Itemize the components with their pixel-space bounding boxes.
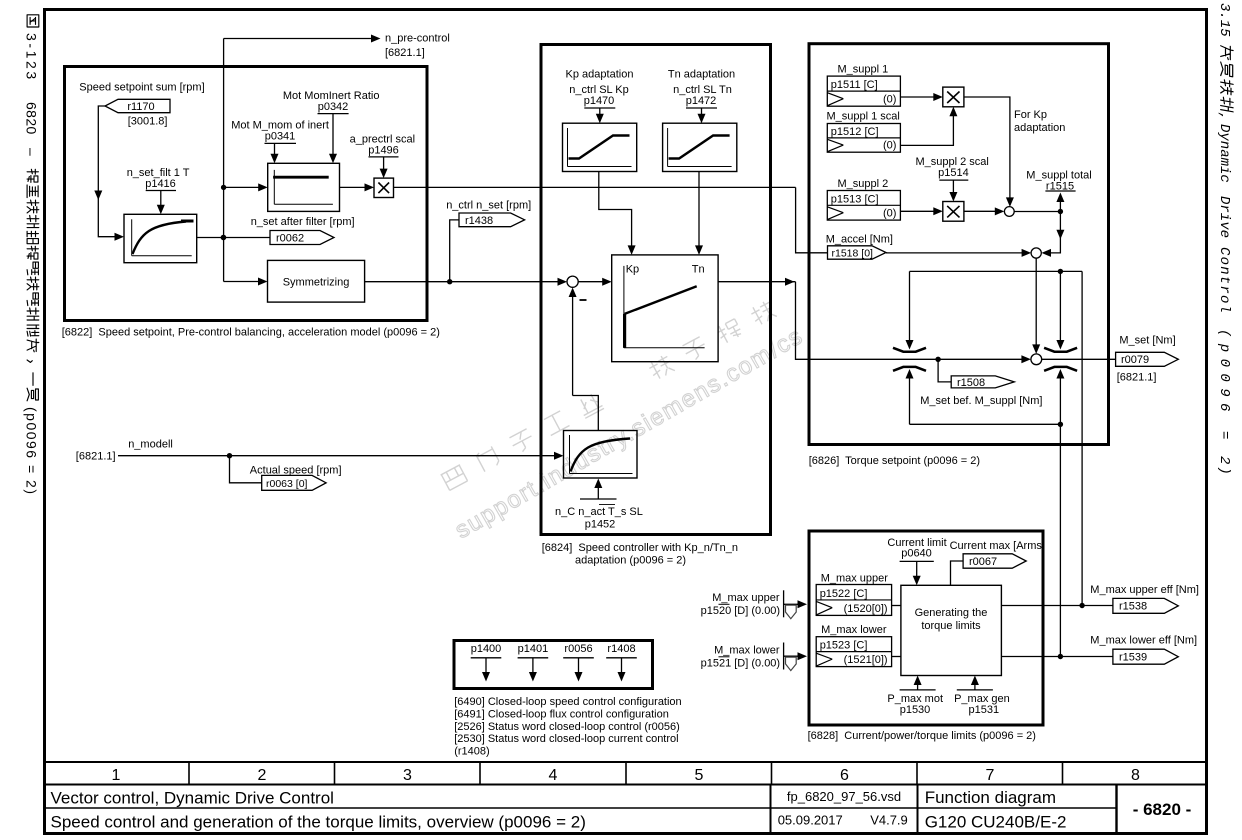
svg-text:1: 1 <box>112 767 121 784</box>
svg-text:fp_6820_97_56.vsd: fp_6820_97_56.vsd <box>787 789 901 804</box>
svg-text:Vector control, Dynamic Drive: Vector control, Dynamic Drive Control <box>51 789 334 808</box>
svg-text:M_accel [Nm]: M_accel [Nm] <box>826 234 893 246</box>
svg-text:p1470: p1470 <box>584 95 615 107</box>
svg-text:For Kp: For Kp <box>1014 109 1047 121</box>
svg-text:8: 8 <box>1131 767 1140 784</box>
svg-text:M_max upper: M_max upper <box>821 573 889 585</box>
svg-text:p1452: p1452 <box>585 519 616 531</box>
svg-text:p1514: p1514 <box>938 167 969 179</box>
svg-text:[6824] Speed controller with: [6824] Speed controller with Kp_n/Tn_n <box>542 542 738 554</box>
svg-text:[6490] Closed-loop speed contr: [6490] Closed-loop speed control configu… <box>454 696 681 708</box>
svg-text:r1170: r1170 <box>127 101 154 113</box>
svg-text:Speed control and generation o: Speed control and generation of the torq… <box>51 813 586 832</box>
svg-text:r0067: r0067 <box>969 556 997 568</box>
svg-text:Symmetrizing: Symmetrizing <box>283 277 350 289</box>
svg-text:p1513 [C]: p1513 [C] <box>831 193 879 205</box>
svg-text:3: 3 <box>403 767 412 784</box>
svg-text:p1400: p1400 <box>471 643 502 655</box>
svg-text:[2530] Status word closed-loop: [2530] Status word closed-loop current c… <box>454 733 678 745</box>
svg-text:,: , <box>1216 112 1232 120</box>
svg-text:- 6820 -: - 6820 - <box>1133 800 1192 819</box>
svg-text:n_modell: n_modell <box>128 439 173 451</box>
svg-text:Speed setpoint sum [rpm]: Speed setpoint sum [rpm] <box>79 82 204 94</box>
svg-text:p1472: p1472 <box>686 95 717 107</box>
svg-text:G120 CU240B/E-2: G120 CU240B/E-2 <box>925 813 1067 832</box>
svg-text:r1539: r1539 <box>1119 652 1147 664</box>
svg-text:adaptation (p0096 = 2): adaptation (p0096 = 2) <box>575 555 686 567</box>
svg-text:M_max upper eff [Nm]: M_max upper eff [Nm] <box>1090 584 1199 596</box>
svg-text:Dynamic: Dynamic <box>1216 124 1232 183</box>
svg-text:[3001.8]: [3001.8] <box>128 116 168 128</box>
svg-text:7: 7 <box>986 767 995 784</box>
svg-text:Drive: Drive <box>1216 196 1232 238</box>
svg-text:adaptation: adaptation <box>1014 122 1065 134</box>
svg-text:Kp: Kp <box>626 264 639 276</box>
svg-text:p1522 [C]: p1522 [C] <box>820 588 868 600</box>
svg-text:2): 2) <box>1216 456 1232 477</box>
svg-text:p1530: p1530 <box>900 704 931 716</box>
svg-text:(r1408): (r1408) <box>454 746 489 758</box>
svg-text:M_suppl 1: M_suppl 1 <box>838 64 889 76</box>
svg-text:[6821.1]: [6821.1] <box>1117 372 1157 384</box>
svg-text:[2526] Status word closed-loop: [2526] Status word closed-loop control (… <box>454 721 680 733</box>
svg-text:=: = <box>1216 431 1232 439</box>
svg-text:Actual speed [rpm]: Actual speed [rpm] <box>250 465 342 477</box>
svg-text:6: 6 <box>840 767 849 784</box>
svg-text:Function diagram: Function diagram <box>925 788 1056 807</box>
svg-text:n_pre-control: n_pre-control <box>385 33 450 45</box>
svg-text:p1496: p1496 <box>368 145 399 157</box>
svg-text:r0063 [0]: r0063 [0] <box>266 478 308 490</box>
svg-text:Tn adaptation: Tn adaptation <box>668 69 735 81</box>
svg-text:n_ctrl n_set [rpm]: n_ctrl n_set [rpm] <box>446 200 531 212</box>
svg-text:p1511 [C]: p1511 [C] <box>831 79 878 91</box>
svg-text:r0062: r0062 <box>276 233 304 245</box>
svg-text:Generating the: Generating the <box>915 607 988 619</box>
svg-text:p1520 [D] (0.00): p1520 [D] (0.00) <box>701 605 781 617</box>
svg-text:3-123: 3-123 <box>24 33 40 82</box>
svg-text:p1523 [C]: p1523 [C] <box>820 640 868 652</box>
svg-text:(1520[0]): (1520[0]) <box>844 603 888 615</box>
svg-text:Kp adaptation: Kp adaptation <box>566 69 634 81</box>
svg-text:3.15: 3.15 <box>1216 3 1232 37</box>
svg-text:Tn: Tn <box>692 264 705 276</box>
svg-text:M_suppl 2: M_suppl 2 <box>838 178 889 190</box>
svg-text:p1521 [D] (0.00): p1521 [D] (0.00) <box>701 658 781 670</box>
svg-text:p1416: p1416 <box>145 178 176 190</box>
svg-text:(0): (0) <box>883 94 896 106</box>
svg-text:n_C n_act T_s SL: n_C n_act T_s SL <box>555 506 643 518</box>
svg-text:M_max lower: M_max lower <box>714 645 780 657</box>
svg-text:r1518 [0]: r1518 [0] <box>832 248 874 260</box>
svg-text:p1512 [C]: p1512 [C] <box>831 126 879 138</box>
svg-text:(p0096: (p0096 <box>1216 329 1232 418</box>
svg-text:5: 5 <box>695 767 704 784</box>
svg-text:M_set [Nm]: M_set [Nm] <box>1119 335 1175 347</box>
svg-text:[6828] Current/power/torque l: [6828] Current/power/torque limits (p009… <box>808 730 1036 742</box>
svg-text:p0640: p0640 <box>901 548 932 560</box>
svg-text:r0079: r0079 <box>1121 354 1149 366</box>
svg-text:p1531: p1531 <box>969 704 1000 716</box>
svg-text:[6826] Torque setpoint (p0096: [6826] Torque setpoint (p0096 = 2) <box>809 455 980 467</box>
svg-text:(0): (0) <box>883 208 896 220</box>
svg-text:05.09.2017: 05.09.2017 <box>778 813 843 828</box>
svg-text:r1538: r1538 <box>1119 601 1147 613</box>
svg-text:M_max lower: M_max lower <box>821 624 887 636</box>
svg-text:r1438: r1438 <box>465 215 493 227</box>
svg-text:r0056: r0056 <box>564 643 592 655</box>
svg-text:6820: 6820 <box>24 102 40 135</box>
svg-text:Current max [Arms]: Current max [Arms] <box>950 540 1045 552</box>
svg-text:M_max upper: M_max upper <box>712 592 780 604</box>
svg-text:r1508: r1508 <box>957 377 985 389</box>
svg-text:[6821.1]: [6821.1] <box>76 451 116 463</box>
svg-text:2: 2 <box>258 767 267 784</box>
svg-text:[6821.1]: [6821.1] <box>385 47 425 59</box>
svg-text:M_suppl 1 scal: M_suppl 1 scal <box>827 111 900 123</box>
svg-text:(p0096 = 2): (p0096 = 2) <box>24 407 40 496</box>
svg-text:p0341: p0341 <box>265 131 296 143</box>
svg-text:torque limits: torque limits <box>921 620 981 632</box>
svg-text:Control: Control <box>1216 247 1232 314</box>
svg-text:(1521[0]): (1521[0]) <box>844 654 888 666</box>
svg-text:M_max lower eff [Nm]: M_max lower eff [Nm] <box>1090 635 1197 647</box>
svg-text:V4.7.9: V4.7.9 <box>870 813 908 828</box>
svg-text:p1401: p1401 <box>518 643 549 655</box>
svg-text:[6822] Speed setpoint, Pre-co: [6822] Speed setpoint, Pre-control balan… <box>62 327 440 339</box>
svg-text:p0342: p0342 <box>318 101 349 113</box>
svg-text:n_set after filter [rpm]: n_set after filter [rpm] <box>251 216 355 228</box>
svg-text:4: 4 <box>549 767 558 784</box>
svg-text:r1408: r1408 <box>607 643 635 655</box>
svg-text:M_set bef. M_suppl [Nm]: M_set bef. M_suppl [Nm] <box>920 395 1042 407</box>
svg-text:[6491] Closed-loop flux contro: [6491] Closed-loop flux control configur… <box>454 708 669 720</box>
svg-text:(0): (0) <box>883 140 896 152</box>
svg-text:–: – <box>24 148 40 156</box>
